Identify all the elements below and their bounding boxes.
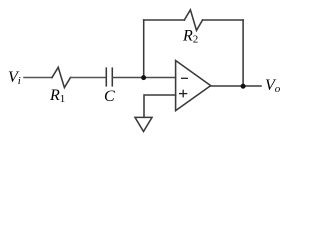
wire feedback top left bbox=[144, 19, 185, 21]
wire output bbox=[211, 85, 261, 87]
wire feedback vertical right bbox=[242, 20, 244, 86]
wire non-inverting input to ground bbox=[144, 95, 176, 117]
resistor R1 bbox=[52, 67, 71, 87]
wire feedback vertical left bbox=[143, 20, 145, 78]
wire R1 to capacitor C bbox=[71, 77, 106, 79]
wire feedback top right bbox=[203, 19, 244, 21]
node junction at inverting input bbox=[141, 75, 146, 80]
op-amp plus pin label bbox=[179, 90, 187, 98]
resistor R2 bbox=[184, 10, 202, 31]
svg-text:Vi: Vi bbox=[8, 69, 21, 87]
svg-text:C: C bbox=[104, 88, 115, 105]
capacitor C bbox=[106, 68, 112, 86]
svg-text:Vo: Vo bbox=[265, 77, 281, 95]
node junction at output bbox=[241, 84, 246, 89]
wire C to op-amp inverting input bbox=[113, 77, 176, 79]
op-amp U1 bbox=[176, 61, 211, 111]
ground bbox=[135, 117, 152, 131]
op-amp minus pin label bbox=[181, 77, 188, 79]
svg-text:R1: R1 bbox=[49, 87, 65, 105]
wire input Vi to R1 bbox=[24, 77, 52, 79]
